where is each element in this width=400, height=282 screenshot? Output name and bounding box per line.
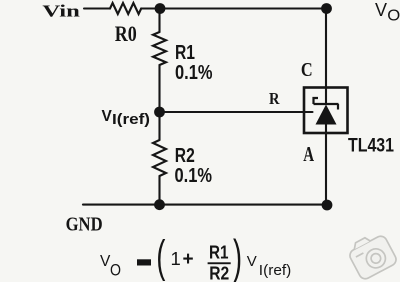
wire: left rail upper lead [158, 9, 160, 33]
svg-text:O: O [110, 262, 121, 280]
svg-text:R: R [269, 89, 280, 108]
svg-text:R1: R1 [175, 42, 195, 64]
svg-text:TL431: TL431 [348, 136, 394, 157]
wire: Vin to R0 [84, 7, 110, 9]
svg-text:): ) [233, 230, 242, 282]
svg-text:0.1%: 0.1% [175, 62, 213, 84]
svg-text:V: V [375, 0, 387, 20]
svg-text:(: ( [156, 232, 165, 281]
svg-text:R2: R2 [175, 145, 195, 167]
svg-text:V: V [247, 253, 257, 270]
svg-text:GND: GND [66, 215, 103, 236]
wire: R1 to Vref node [158, 65, 160, 112]
formula equals sign [137, 259, 151, 265]
svg-text:V: V [102, 108, 113, 125]
resistor R0 [110, 3, 141, 14]
wire: ground rail [83, 204, 327, 206]
svg-text:R1: R1 [209, 243, 229, 263]
wire: top-right node down to TL431 cathode [325, 9, 327, 105]
wire: R0 to top-right node [141, 7, 326, 9]
TL431 cathode bar [314, 103, 339, 105]
svg-text:R0: R0 [115, 21, 137, 46]
node Vref junction [154, 107, 165, 118]
svg-text:O: O [387, 8, 400, 25]
node: output junction [321, 3, 332, 14]
svg-text:C: C [301, 59, 313, 81]
TL431 anode triangle [316, 105, 337, 125]
svg-text:R2: R2 [209, 263, 229, 282]
svg-text:I(ref): I(ref) [259, 263, 292, 279]
svg-text:0.1%: 0.1% [175, 165, 213, 187]
wire: Vref node to TL431 R pin [160, 111, 313, 113]
svg-text:1: 1 [171, 248, 181, 269]
formula fraction bar [208, 262, 231, 264]
watermark camera icon [345, 229, 398, 281]
wire: Vref node to R2 [158, 112, 160, 140]
resistor R2 [153, 140, 166, 176]
wire: R2 to ground rail [158, 176, 160, 205]
op-amp U1 TL431 box [304, 88, 348, 134]
svg-text:A: A [303, 142, 314, 166]
node: Vin/R1 junction [155, 3, 166, 14]
svg-text:+: + [183, 249, 194, 270]
node: anode/ground junction [322, 200, 333, 211]
TL431 cathode bar right tick [337, 104, 339, 110]
TL431 cathode bar left tick [314, 98, 319, 104]
svg-text:I(ref): I(ref) [112, 111, 150, 128]
svg-text:Vin: Vin [42, 1, 80, 20]
node: R2/ground junction [154, 199, 165, 210]
resistor R1 [153, 32, 166, 65]
wire: TL431 anode down to ground rail [325, 125, 327, 206]
